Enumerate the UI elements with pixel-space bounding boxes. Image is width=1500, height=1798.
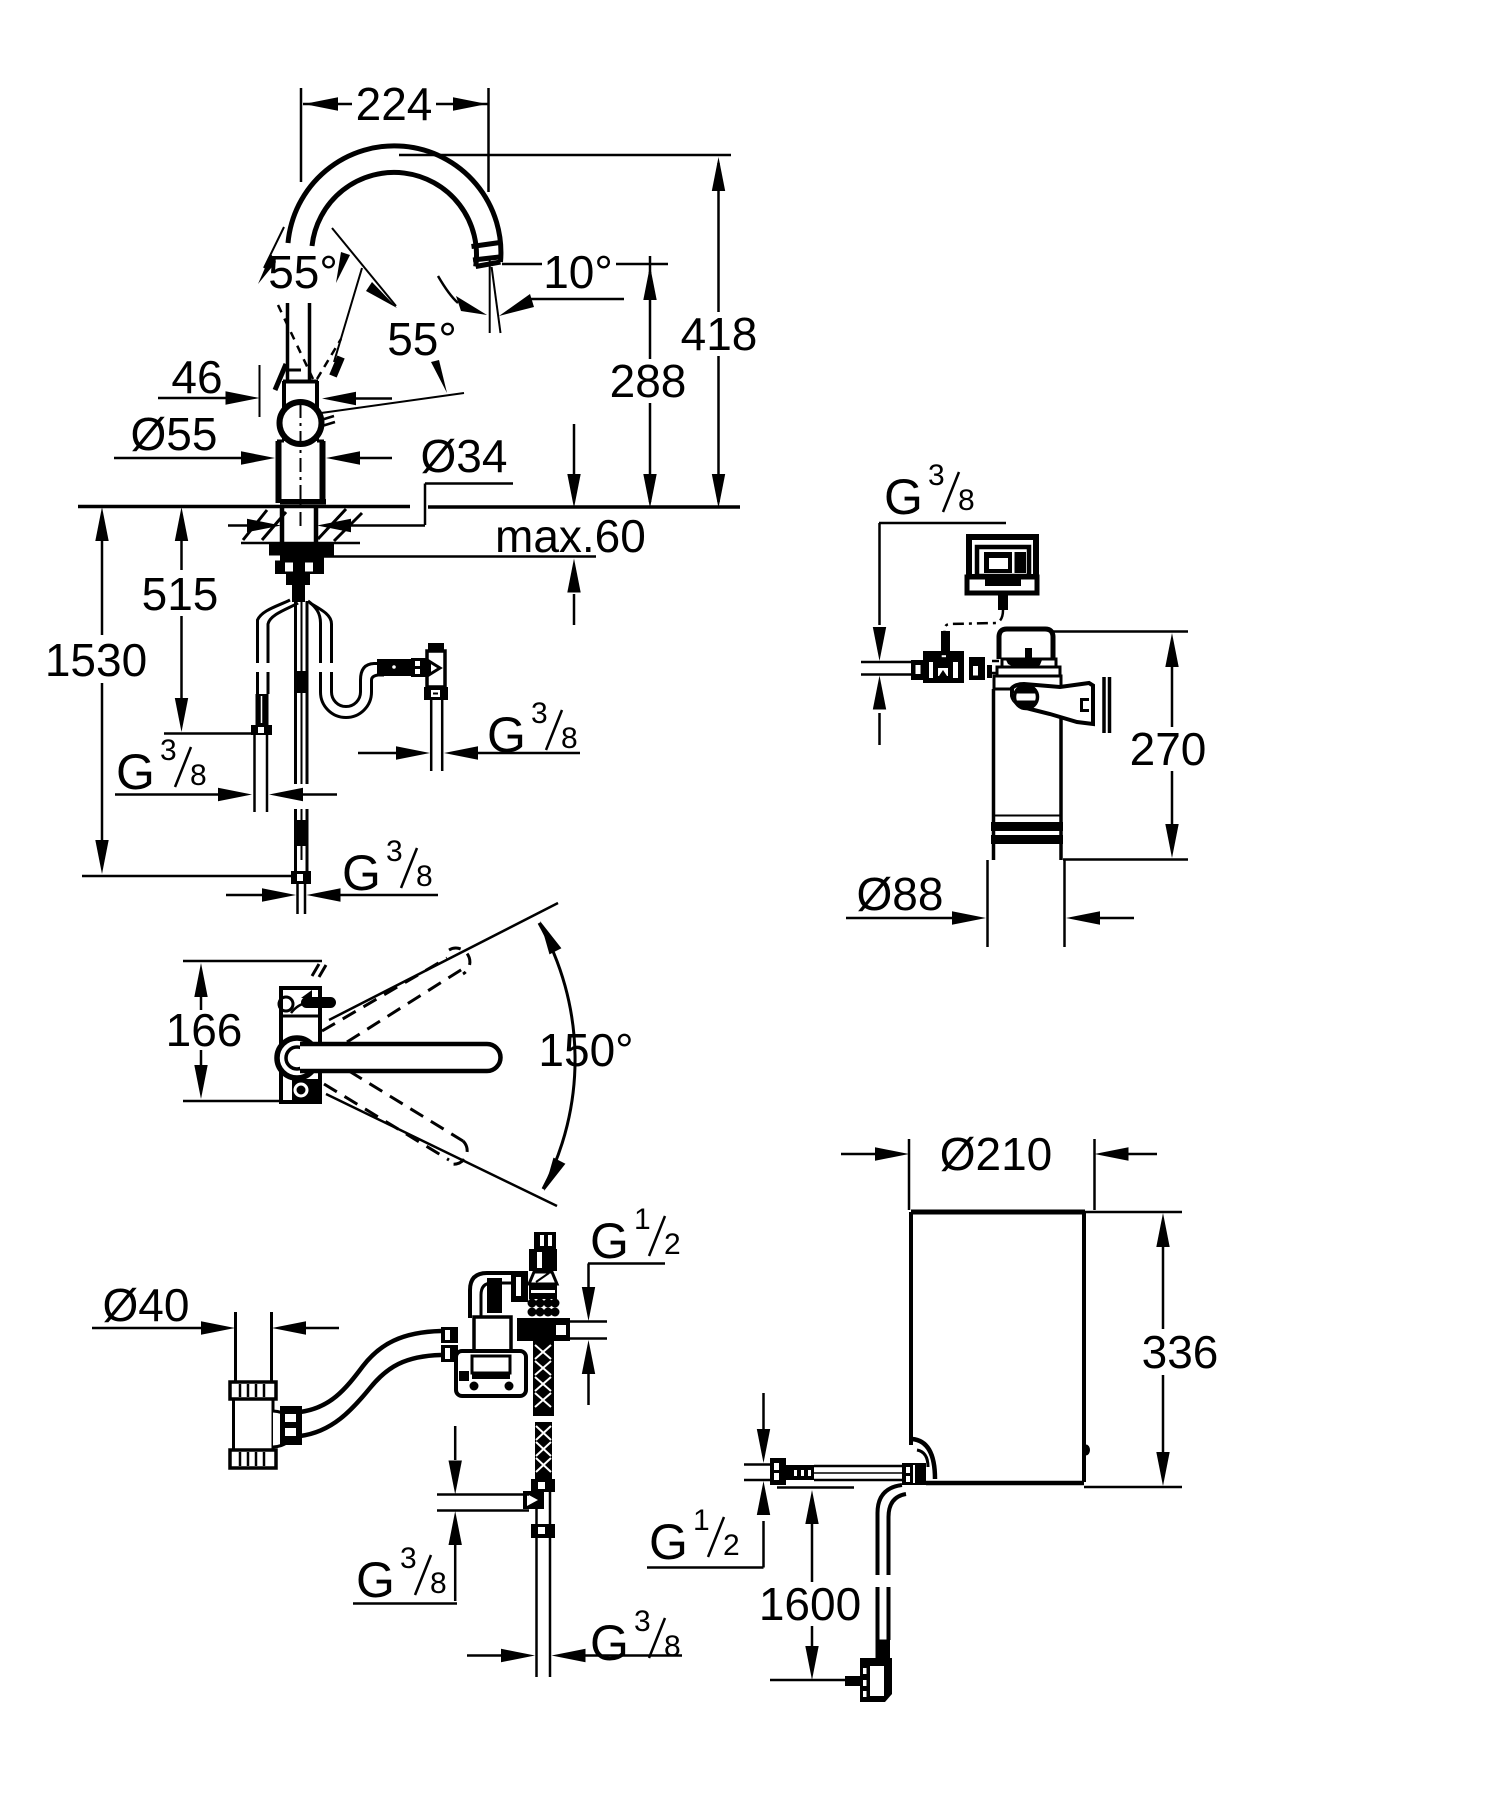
tank right wall — [1082, 1212, 1086, 1482]
svg-text:G: G — [487, 707, 526, 763]
dimension G3/8 right line — [358, 752, 396, 755]
svg-text:max.60: max.60 — [495, 510, 646, 562]
dimension 1530 line — [101, 541, 104, 840]
check fitting marker — [523, 1491, 544, 1509]
counter top line right — [428, 505, 740, 509]
trap bottom cap — [230, 1450, 276, 1468]
55deg lower dashes — [321, 416, 335, 426]
faucet body base plate — [280, 499, 326, 505]
power plug body — [860, 1658, 892, 1702]
handle stem tick — [288, 369, 301, 372]
svg-text:G: G — [590, 1615, 629, 1671]
dimension 224 line — [303, 103, 488, 106]
dimension 166 top reference — [183, 960, 322, 963]
shank stub — [286, 574, 310, 585]
svg-text:46: 46 — [171, 351, 222, 403]
dimension 224 extension lines — [301, 88, 489, 192]
wall plate — [1104, 677, 1110, 733]
spout arc outer — [288, 146, 501, 262]
bottom thread pipe — [537, 1538, 551, 1677]
dimension 270 top reference — [1053, 630, 1188, 633]
dimension D55 line — [114, 457, 241, 460]
svg-text:3: 3 — [634, 1605, 651, 1638]
faucet pivot circle — [280, 402, 322, 444]
inlet left nut — [911, 660, 924, 680]
left hose curve — [258, 600, 291, 694]
trap top cap — [230, 1382, 276, 1399]
solenoid elbow outline — [470, 1273, 513, 1318]
svg-text:270: 270 — [1130, 723, 1207, 775]
inlet pipe — [861, 662, 911, 675]
pivot outer ring — [277, 1038, 317, 1078]
dashed arm lower line 2 — [349, 1071, 463, 1141]
55deg left dashed handle axis — [278, 305, 313, 379]
150deg arc arrows — [534, 918, 561, 954]
G1/2 leader — [588, 1264, 665, 1289]
150deg arc — [539, 923, 575, 1189]
braid nut — [531, 1479, 555, 1492]
G3/8 mid leader — [353, 1602, 457, 1605]
svg-text:418: 418 — [681, 308, 758, 360]
dimension 336 line — [1162, 1247, 1165, 1453]
plate divider line — [281, 1015, 320, 1018]
right hose black bar — [377, 659, 420, 676]
angle valve cone — [529, 1272, 557, 1284]
dashed arm lower cap — [448, 1141, 467, 1164]
boiler inlet pipe open end — [744, 1465, 770, 1481]
bracket clip mark — [1080, 698, 1089, 712]
tank side knob — [1082, 1445, 1090, 1456]
10deg tilted axis line — [492, 267, 501, 333]
trap body — [234, 1399, 274, 1450]
dimension 1530 reference line — [82, 875, 292, 878]
svg-text:Ø210: Ø210 — [940, 1128, 1053, 1180]
inlet valve body — [923, 651, 964, 683]
dimension 1600 bottom reference — [770, 1679, 845, 1682]
dimension 1600 line — [811, 1524, 814, 1646]
dimension D88 line — [846, 917, 952, 920]
dimension 288 tick — [649, 256, 652, 274]
top view hatch arc — [291, 1003, 307, 1013]
angle valve band — [529, 1284, 557, 1299]
handle lever right dashed — [317, 339, 341, 379]
display connector — [998, 593, 1008, 610]
faucet body cap — [283, 380, 318, 384]
dimension max.60 arrows — [573, 424, 576, 476]
display cable dash-dot — [945, 610, 1004, 634]
svg-text:55°: 55° — [268, 246, 338, 298]
angle boundary line upper — [329, 903, 558, 1020]
svg-text:3: 3 — [928, 459, 945, 492]
svg-text:Ø34: Ø34 — [421, 430, 508, 482]
dimension G3/8 bottom line — [226, 894, 262, 897]
cross fitting — [517, 1318, 570, 1341]
check valve thread end — [431, 700, 442, 771]
check valve top cap — [428, 643, 444, 651]
svg-text:8: 8 — [664, 1630, 681, 1663]
svg-text:G: G — [116, 744, 155, 800]
dimension 270 bottom reference — [1063, 858, 1188, 861]
check valve bottom nut — [424, 687, 448, 700]
counter top line left — [78, 505, 410, 509]
label G3/8 filter — [884, 459, 975, 525]
svg-text:3: 3 — [400, 1542, 417, 1575]
solenoid coil bar — [487, 1278, 502, 1313]
inlet pipe — [814, 1466, 902, 1480]
filter head body — [1002, 659, 1056, 668]
dimension 288 line — [649, 272, 652, 502]
right port pipe — [570, 1322, 607, 1339]
filter head pin — [1025, 648, 1032, 659]
display unit screen — [977, 547, 1029, 576]
svg-text:1530: 1530 — [45, 634, 147, 686]
label G3/8 mid — [356, 1542, 447, 1608]
dashed arm upper line 1 — [322, 958, 447, 1031]
faucet body upper walls — [284, 381, 317, 441]
tank left wall — [909, 1212, 913, 1445]
top view base plate — [281, 988, 320, 1102]
right hose S-curve — [308, 601, 384, 718]
svg-text:1600: 1600 — [759, 1578, 861, 1630]
svg-text:150°: 150° — [538, 1024, 633, 1076]
trap side port bump — [273, 1411, 292, 1447]
label G1/2 — [590, 1203, 681, 1269]
label G3/8 bottom — [342, 835, 433, 901]
flush outlet pipe — [437, 1495, 529, 1511]
angle valve body — [529, 1249, 557, 1271]
mounting shank walls — [282, 508, 316, 543]
dimension 46 extension line — [259, 365, 261, 417]
filter head flange — [997, 667, 1060, 676]
cartridge band lines — [992, 815, 1062, 817]
dimension D40 line — [92, 1327, 201, 1330]
55deg left indicator line and arrow — [264, 227, 284, 268]
center pipe bottom nut — [291, 871, 311, 884]
top view lever triangle — [301, 990, 312, 998]
spout arc inner — [312, 172, 477, 266]
display unit outer — [969, 537, 1036, 577]
dimension D34 leader — [350, 484, 513, 526]
dimension G3/8 bottom line — [467, 1654, 501, 1657]
cartridge lower sleeve — [988, 860, 1065, 947]
label G3/8 bottom right — [590, 1605, 681, 1671]
dashed arm upper line 2 — [347, 968, 464, 1042]
swivel marks above plate — [312, 964, 326, 977]
dimension D210 extension lines — [909, 1139, 1095, 1210]
pipe to filter head — [992, 661, 999, 673]
label G3/8 left — [116, 734, 207, 800]
left hose sleeve — [256, 694, 269, 725]
10deg right arrow and line — [499, 294, 534, 316]
G1/2 boiler leader — [647, 1521, 764, 1568]
solenoid valve body — [474, 1317, 511, 1351]
spout aerator band — [472, 243, 501, 261]
55deg right indicator line A — [332, 228, 396, 306]
svg-text:55°: 55° — [387, 313, 457, 365]
lower compartment ring — [295, 1084, 307, 1096]
label G3/8 right — [487, 697, 578, 763]
power cable — [878, 1485, 903, 1640]
tank inlet elbow — [912, 1439, 935, 1479]
braided hose upper — [533, 1341, 554, 1416]
check valve left nut — [411, 658, 426, 677]
label G1/2 boiler — [649, 1504, 740, 1570]
svg-text:UP: UP — [937, 660, 948, 669]
tank bottom — [926, 1481, 1084, 1486]
svg-text:2: 2 — [664, 1228, 681, 1261]
filter head cap — [999, 629, 1053, 659]
55deg lower rotation line — [321, 393, 464, 413]
solenoid bracket — [456, 1351, 526, 1396]
mounting nut — [275, 561, 324, 575]
svg-text:8: 8 — [190, 759, 207, 792]
counter hatching — [243, 509, 362, 541]
filter cartridge body — [994, 689, 1062, 860]
svg-text:2: 2 — [723, 1529, 740, 1562]
solenoid left connector — [441, 1327, 458, 1343]
filter head wedge — [1006, 660, 1042, 673]
dimension 515 line — [180, 541, 183, 698]
svg-text:3: 3 — [160, 734, 177, 767]
dimension 270 line — [1171, 667, 1174, 824]
power plug pin — [845, 1676, 860, 1686]
svg-text:288: 288 — [610, 355, 687, 407]
svg-text:G: G — [649, 1514, 688, 1570]
dimension D34 arrows — [228, 524, 252, 527]
spout bar capsule — [300, 1044, 501, 1071]
mounting flange — [269, 544, 334, 556]
top view lever capsule — [301, 997, 336, 1008]
dimension 46 line — [158, 397, 226, 400]
center pipe thread end — [298, 884, 306, 914]
svg-text:8: 8 — [430, 1567, 447, 1600]
G3/8 filter thickness arrows — [873, 627, 886, 661]
pivot inner ring — [286, 1047, 308, 1069]
G1/2 boiler thickness arrows — [762, 1393, 765, 1429]
faucet body shoulder — [277, 440, 324, 443]
svg-text:3: 3 — [386, 835, 403, 868]
dimension 418 line — [717, 163, 720, 502]
svg-text:336: 336 — [1142, 1326, 1219, 1378]
svg-text:515: 515 — [142, 568, 219, 620]
knurl bumps — [528, 1299, 560, 1317]
dimension 166 line — [200, 997, 203, 1067]
lower nut — [531, 1524, 555, 1538]
dimension 515 reference line — [164, 732, 266, 735]
svg-text:3: 3 — [531, 697, 548, 730]
svg-text:1: 1 — [693, 1504, 710, 1537]
svg-text:Ø55: Ø55 — [131, 408, 218, 460]
dimension 336 references — [1084, 1212, 1182, 1487]
55deg right indicator line B — [334, 268, 362, 362]
dashed arm upper cap — [449, 948, 470, 974]
solenoid top nut — [511, 1271, 528, 1302]
dimension 10deg leader lines — [502, 263, 668, 266]
braided hose lower — [535, 1422, 552, 1479]
dimension 166 bottom reference — [183, 1100, 318, 1103]
svg-text:Ø88: Ø88 — [857, 868, 944, 920]
dimension max.60 bottom line — [322, 555, 596, 558]
svg-text:G: G — [342, 845, 381, 901]
faucet centerline — [300, 404, 302, 530]
inlet pipe thread bar — [786, 1465, 814, 1480]
drain hose S-curve — [300, 1331, 441, 1412]
svg-text:224: 224 — [356, 78, 433, 130]
display unit base — [967, 577, 1037, 593]
10deg left curved leader with arrow — [438, 276, 458, 303]
height reference line at arc top — [399, 154, 731, 157]
check fitting pipe — [537, 1492, 551, 1524]
svg-text:G: G — [356, 1552, 395, 1608]
10deg vertical reference line — [489, 256, 491, 333]
tank inlet fitting — [902, 1463, 926, 1485]
angle boundary line lower — [326, 1094, 557, 1206]
center pipe sleeve — [294, 671, 308, 693]
bracket arm — [1012, 683, 1093, 724]
left hose thread end — [255, 735, 268, 812]
lower compartment block — [292, 1079, 319, 1102]
G1/2 thickness arrows — [582, 1287, 595, 1321]
svg-text:8: 8 — [958, 484, 975, 517]
G3/8 filter leader — [879, 523, 1006, 625]
power cable ferrule — [876, 1640, 891, 1659]
faucet body lower walls — [279, 441, 323, 503]
inlet pipe left nut — [770, 1458, 786, 1485]
tank top — [911, 1210, 1085, 1215]
svg-text:G: G — [884, 469, 923, 525]
dimension G3/8 left line — [115, 793, 218, 796]
trap inlet pipe — [236, 1312, 272, 1382]
left hose nut — [251, 725, 272, 735]
svg-text:1: 1 — [634, 1203, 651, 1236]
bracket knob circle — [1015, 686, 1038, 709]
counter bottom line — [241, 542, 360, 545]
handle lever left mark — [275, 364, 286, 390]
55deg lower rotation arrow — [431, 360, 447, 393]
svg-text:10°: 10° — [543, 246, 613, 298]
mounting washer — [280, 556, 324, 561]
check valve body — [427, 651, 445, 687]
inlet right nut — [969, 657, 985, 680]
trap side port nut — [280, 1406, 302, 1445]
handle stem lines — [288, 303, 310, 381]
center pipe inner cable — [301, 601, 303, 860]
svg-text:8: 8 — [561, 722, 578, 755]
center supply pipe — [296, 601, 308, 871]
filter head collar — [994, 676, 1061, 689]
top view handle circle — [279, 997, 293, 1011]
svg-text:G: G — [590, 1213, 629, 1269]
dashed arm lower line 1 — [324, 1084, 449, 1160]
svg-text:8: 8 — [416, 860, 433, 893]
svg-text:Ø40: Ø40 — [103, 1279, 190, 1331]
dimension 1600 top reference — [777, 1486, 854, 1489]
flush pipe dimension arrows — [454, 1426, 457, 1460]
handle lever knob — [333, 357, 341, 376]
angle valve top nut — [534, 1232, 556, 1249]
dimension D210 line — [841, 1153, 875, 1156]
spout end cap — [476, 262, 501, 267]
svg-text:166: 166 — [166, 1004, 243, 1056]
inlet valve top port — [941, 631, 950, 651]
